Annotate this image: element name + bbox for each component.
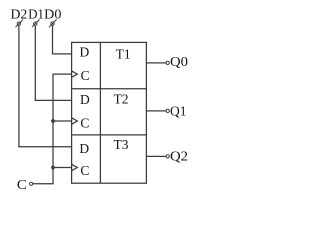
- junction dot at T3 C: [51, 166, 55, 170]
- svg-text:Q2: Q2: [170, 149, 188, 164]
- wire Q0 output: [146, 62, 166, 64]
- clock triangle T1: [72, 71, 78, 77]
- clock triangle T3: [72, 164, 78, 170]
- svg-text:D: D: [80, 45, 90, 60]
- svg-text:D: D: [80, 92, 90, 107]
- clock wire from terminal up to T1 C input: [33, 74, 71, 184]
- svg-text:D: D: [79, 141, 89, 156]
- wire D2 to T3 D input: [19, 26, 71, 147]
- svg-text:Q1: Q1: [170, 103, 187, 118]
- register box outline: [72, 42, 147, 183]
- internal vertical divider: [99, 42, 101, 183]
- svg-text:T2: T2: [114, 92, 129, 107]
- clock triangle T2: [72, 118, 78, 124]
- clock branch to T2 C input: [53, 120, 71, 122]
- svg-text:Q0: Q0: [170, 54, 188, 69]
- terminal Q0: [166, 61, 169, 64]
- clock branch to T3 C input: [53, 167, 71, 169]
- svg-text:D1: D1: [28, 7, 44, 22]
- svg-text:D0: D0: [44, 7, 61, 22]
- divider T1/T2: [72, 88, 147, 90]
- svg-text:D2: D2: [11, 7, 28, 22]
- wire Q2 output: [146, 155, 166, 157]
- svg-text:T3: T3: [114, 137, 129, 152]
- svg-text:C: C: [80, 116, 89, 131]
- terminal D0: [49, 19, 57, 27]
- svg-text:C: C: [80, 163, 89, 178]
- terminal Q1: [166, 109, 169, 112]
- svg-text:C: C: [17, 177, 27, 192]
- junction dot at T2 C: [51, 119, 55, 123]
- svg-text:T1: T1: [116, 46, 131, 61]
- divider T2/T3: [72, 134, 147, 136]
- wire D0 to T1 D input: [53, 26, 72, 54]
- terminal D2: [16, 20, 24, 28]
- wire Q1 output: [146, 110, 166, 112]
- terminal D1: [32, 20, 40, 28]
- svg-text:C: C: [81, 68, 90, 83]
- terminal C: [30, 182, 33, 185]
- terminal Q2: [166, 155, 169, 158]
- wire D1 to T2 D input: [35, 26, 71, 101]
